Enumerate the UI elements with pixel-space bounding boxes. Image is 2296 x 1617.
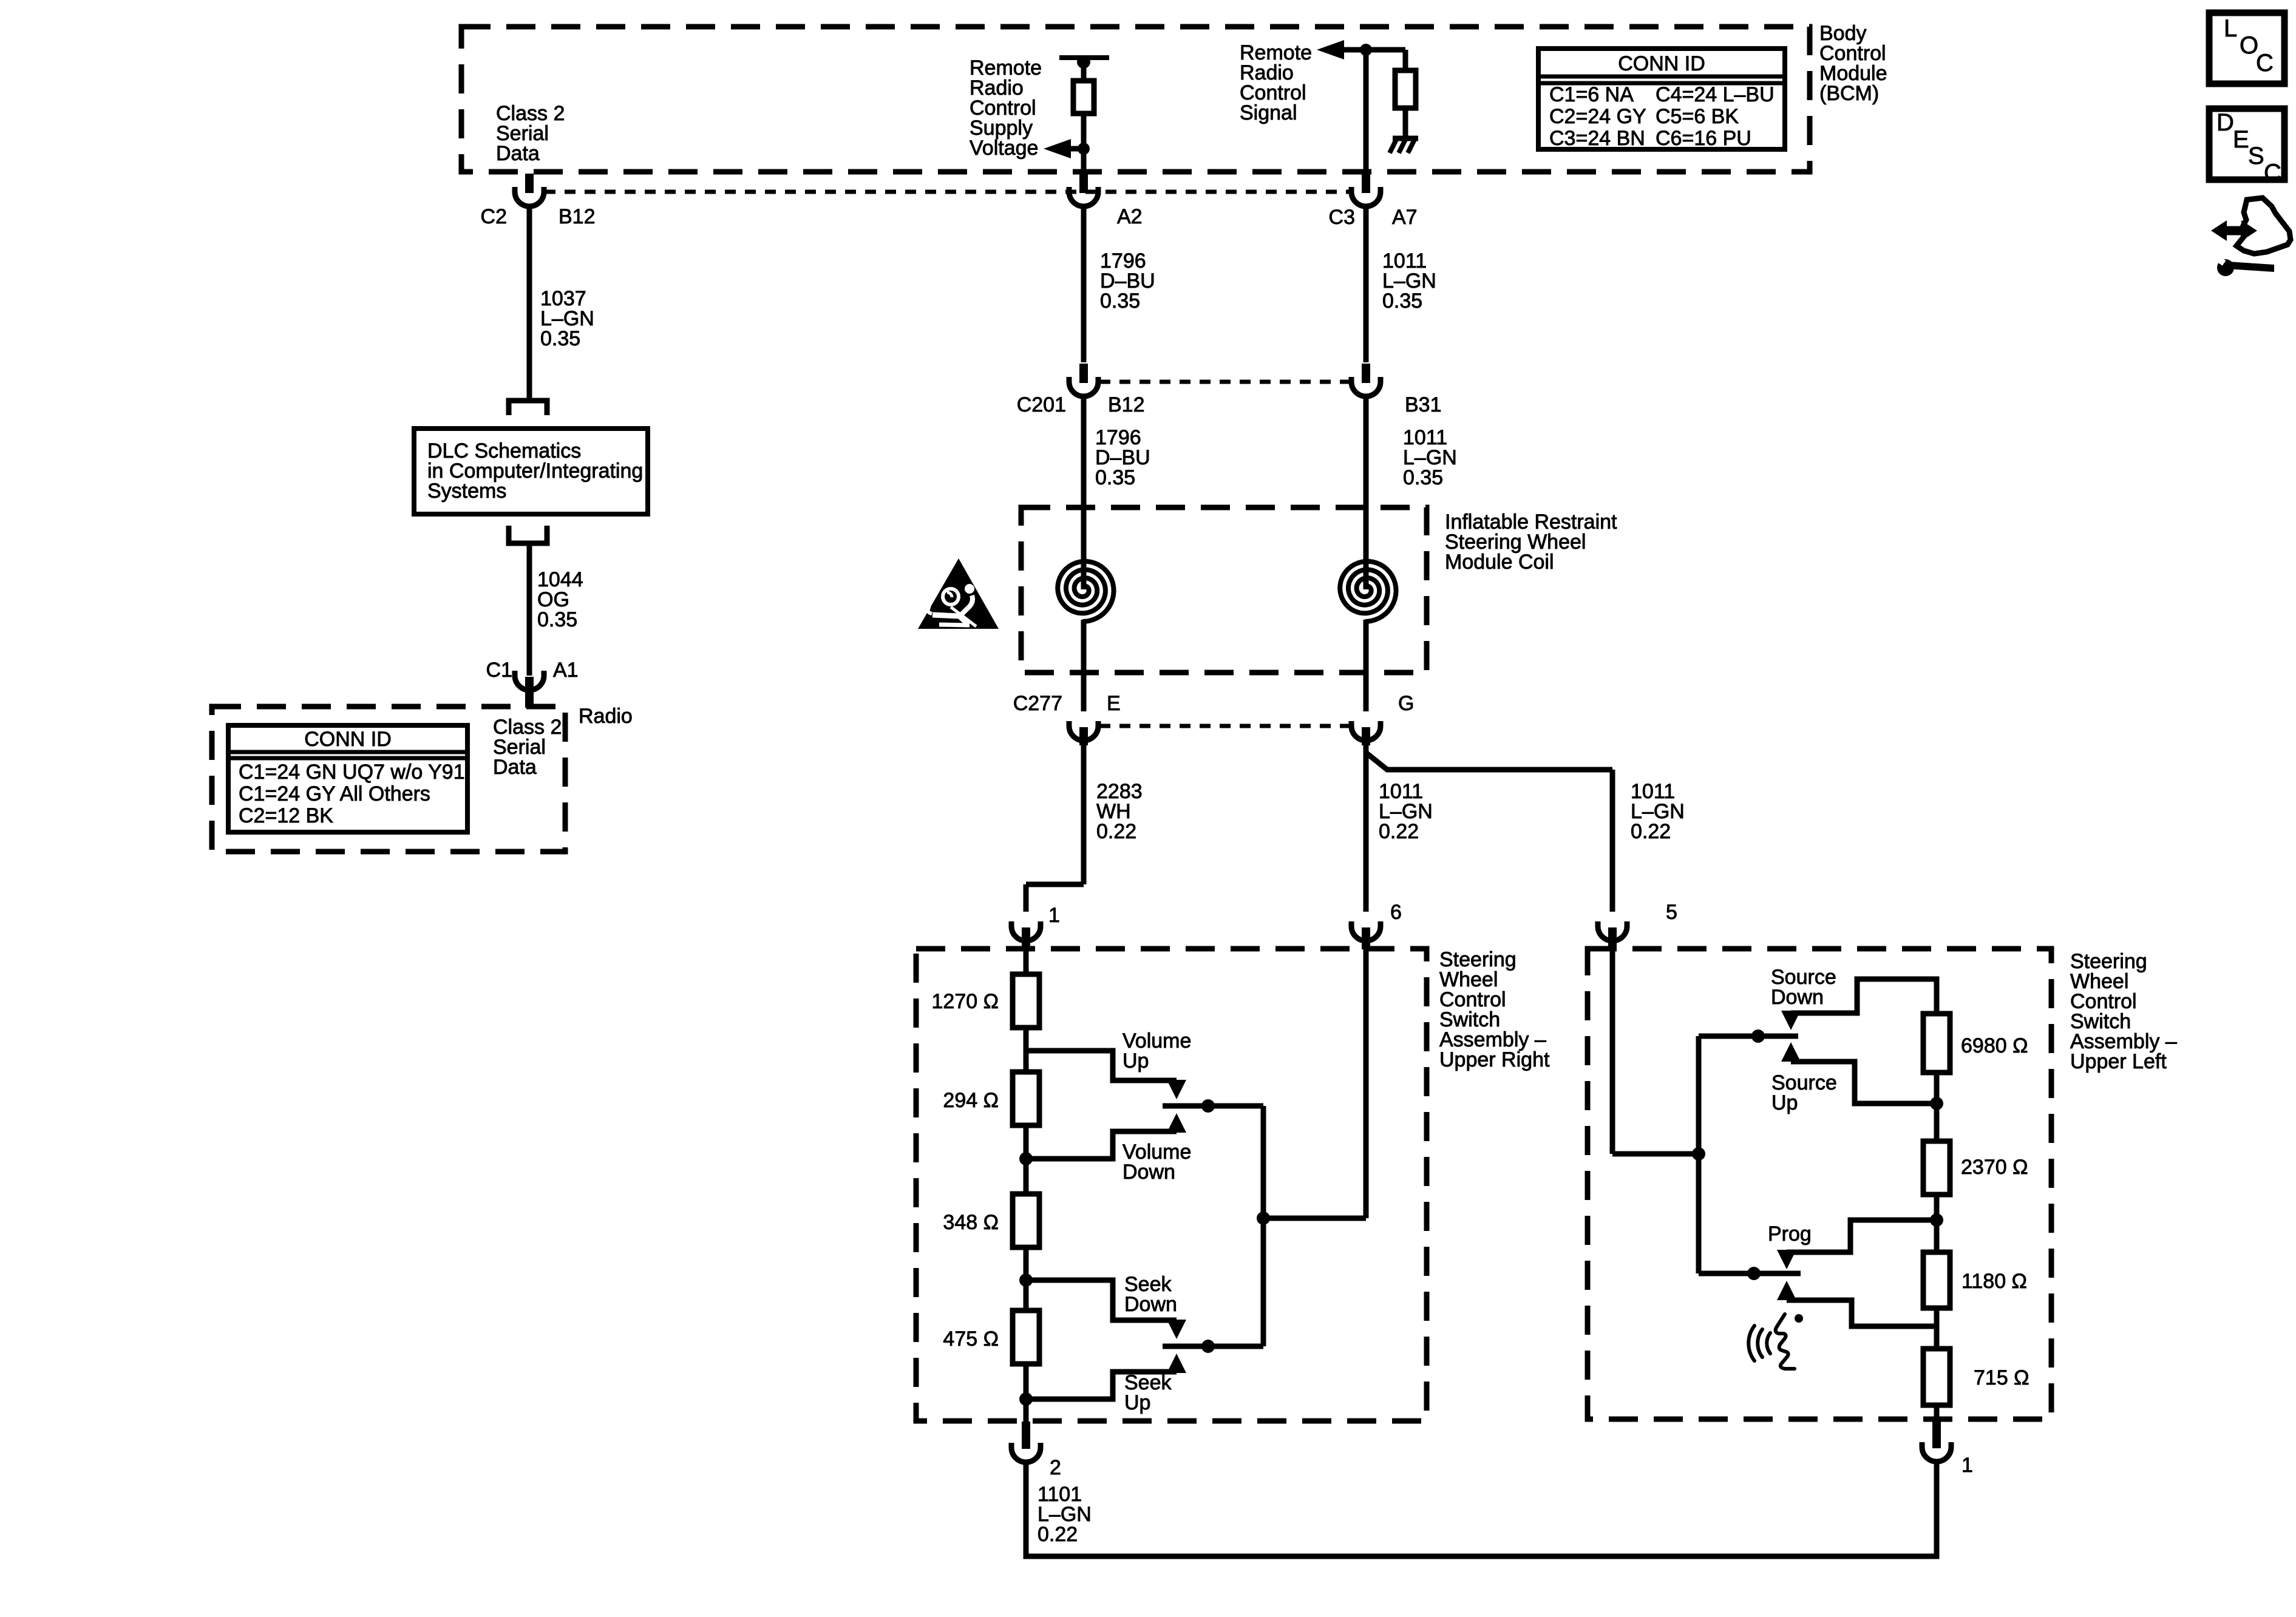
svg-text:A2: A2 <box>1117 205 1143 228</box>
svg-text:C5=6 BK: C5=6 BK <box>1656 105 1739 128</box>
svg-text:1270 Ω: 1270 Ω <box>932 990 999 1013</box>
svg-text:E: E <box>2233 126 2249 153</box>
svg-text:2370 Ω: 2370 Ω <box>1961 1156 2028 1179</box>
svg-text:0.22: 0.22 <box>1631 820 1671 843</box>
svg-text:Upper Left: Upper Left <box>2070 1050 2167 1073</box>
svg-text:0.35: 0.35 <box>537 608 577 631</box>
svg-text:2: 2 <box>1050 1456 1061 1479</box>
svg-text:C6=16 PU: C6=16 PU <box>1656 127 1751 150</box>
svg-text:D: D <box>2216 109 2234 136</box>
svg-text:1: 1 <box>1961 1454 1973 1477</box>
svg-text:0.35: 0.35 <box>1095 466 1135 489</box>
svg-text:C1: C1 <box>486 659 512 682</box>
svg-text:Module Coil: Module Coil <box>1445 551 1554 574</box>
svg-text:C1=24 GY All Others: C1=24 GY All Others <box>239 782 430 805</box>
svg-text:A7: A7 <box>1392 206 1418 229</box>
svg-text:0.22: 0.22 <box>1038 1523 1078 1546</box>
svg-text:475 Ω: 475 Ω <box>943 1327 999 1351</box>
svg-text:L: L <box>2224 15 2237 42</box>
svg-text:6: 6 <box>1390 901 1402 924</box>
svg-text:C1=6 NA: C1=6 NA <box>1549 83 1634 106</box>
svg-text:1180 Ω: 1180 Ω <box>1961 1270 2027 1293</box>
svg-text:C3=24 BN: C3=24 BN <box>1549 127 1645 150</box>
svg-text:1: 1 <box>1048 904 1060 927</box>
svg-text:Upper Right: Upper Right <box>1439 1048 1550 1071</box>
svg-text:S: S <box>2248 143 2264 169</box>
svg-text:CONN ID: CONN ID <box>1618 52 1705 75</box>
svg-text:C3: C3 <box>1329 206 1355 229</box>
svg-text:C1=24 GN UQ7 w/o Y91: C1=24 GN UQ7 w/o Y91 <box>239 761 465 784</box>
svg-text:Down: Down <box>1124 1293 1177 1316</box>
svg-text:C2=24 GY: C2=24 GY <box>1549 105 1646 128</box>
svg-text:B12: B12 <box>1108 393 1145 416</box>
svg-text:B31: B31 <box>1405 393 1442 416</box>
svg-text:C: C <box>2264 160 2281 186</box>
svg-text:C277: C277 <box>1013 692 1062 715</box>
svg-text:348 Ω: 348 Ω <box>943 1211 999 1234</box>
svg-text:Up: Up <box>1124 1391 1150 1414</box>
svg-text:E: E <box>1107 692 1121 715</box>
svg-text:0.22: 0.22 <box>1379 820 1419 843</box>
svg-text:Data: Data <box>496 142 540 165</box>
svg-text:0.35: 0.35 <box>1403 466 1443 489</box>
svg-text:Voltage: Voltage <box>970 137 1038 160</box>
svg-text:Up: Up <box>1123 1049 1149 1073</box>
svg-text:G: G <box>1398 692 1414 715</box>
svg-text:6980 Ω: 6980 Ω <box>1961 1034 2028 1057</box>
svg-text:294 Ω: 294 Ω <box>943 1089 999 1112</box>
svg-text:Systems: Systems <box>427 480 506 503</box>
svg-text:Data: Data <box>493 756 537 779</box>
svg-text:B12: B12 <box>559 205 596 228</box>
svg-text:Radio: Radio <box>579 705 633 728</box>
svg-text:(BCM): (BCM) <box>1819 82 1879 105</box>
svg-text:0.22: 0.22 <box>1096 820 1136 843</box>
svg-text:C2: C2 <box>481 205 507 228</box>
svg-text:C201: C201 <box>1017 393 1066 416</box>
svg-text:CONN ID: CONN ID <box>304 728 392 751</box>
svg-text:Up: Up <box>1771 1091 1798 1114</box>
svg-text:0.35: 0.35 <box>1382 290 1422 313</box>
svg-text:Down: Down <box>1123 1161 1175 1184</box>
svg-text:C4=24 L–BU: C4=24 L–BU <box>1656 83 1775 106</box>
svg-text:A1: A1 <box>553 659 579 682</box>
svg-text:C2=12 BK: C2=12 BK <box>239 804 333 827</box>
svg-text:Down: Down <box>1771 986 1824 1009</box>
svg-text:715 Ω: 715 Ω <box>1974 1366 2029 1389</box>
svg-text:Signal: Signal <box>1240 101 1297 124</box>
svg-text:5: 5 <box>1666 901 1677 924</box>
svg-text:0.35: 0.35 <box>1100 290 1140 313</box>
svg-text:C: C <box>2256 50 2274 76</box>
svg-text:Prog: Prog <box>1768 1222 1812 1246</box>
svg-text:0.35: 0.35 <box>540 327 580 350</box>
